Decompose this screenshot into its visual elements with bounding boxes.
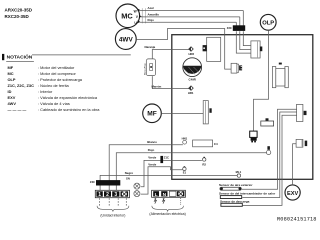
connector CN2 4WV plug bbox=[231, 63, 242, 73]
connector R2 bbox=[202, 157, 206, 167]
svg-text:Azul: Azul bbox=[148, 6, 154, 10]
svg-text:Rojo: Rojo bbox=[148, 18, 155, 22]
wire Blanco bbox=[109, 140, 183, 191]
connector ML1 bbox=[236, 170, 242, 177]
brace alimentacion electrica bbox=[152, 206, 184, 212]
wire 4WV to connector CN2 bbox=[137, 29, 232, 70]
svg-text:OLP: OLP bbox=[8, 77, 16, 82]
svg-text:ID: ID bbox=[8, 89, 12, 94]
svg-text:Z3C: Z3C bbox=[227, 26, 232, 30]
wire Verde 2 bbox=[141, 162, 183, 194]
svg-text:EXV: EXV bbox=[8, 95, 16, 100]
protector OLP bbox=[260, 14, 276, 30]
svg-text:Verde: Verde bbox=[148, 156, 156, 160]
relay module R1 bbox=[203, 37, 221, 61]
svg-text:HR2: HR2 bbox=[188, 52, 194, 56]
svg-text:Naranja: Naranja bbox=[145, 45, 156, 49]
svg-text:OLP: OLP bbox=[262, 21, 274, 27]
svg-text:C4: C4 bbox=[214, 142, 218, 146]
svg-text:Blanco/Rojo: Blanco/Rojo bbox=[145, 62, 147, 75]
svg-text:Marrón: Marrón bbox=[152, 84, 162, 88]
svg-text:V: V bbox=[136, 15, 139, 19]
svg-text:HN1: HN1 bbox=[182, 137, 188, 141]
svg-text:1: 1 bbox=[98, 192, 101, 198]
svg-text:C49R: C49R bbox=[189, 78, 197, 82]
notation legend title underline bbox=[6, 60, 34, 62]
svg-text:: Protector de sobrecarga: : Protector de sobrecarga bbox=[38, 77, 83, 82]
main outdoor unit box bbox=[172, 35, 313, 180]
svg-text:GN: GN bbox=[126, 178, 130, 181]
dotted earth below ground bbox=[180, 198, 182, 205]
connector pin on Rojo wire bbox=[266, 146, 270, 154]
wire drops into ferrite Z3C bbox=[236, 11, 243, 27]
svg-text:: Interior: : Interior bbox=[38, 89, 53, 94]
wire Rojo bottom bbox=[116, 148, 266, 191]
wire Marron to HR1 bbox=[152, 76, 190, 89]
svg-text:R08024151718: R08024151718 bbox=[277, 217, 317, 223]
svg-text:4WV: 4WV bbox=[8, 101, 17, 106]
svg-text:ML1: ML1 bbox=[236, 170, 242, 174]
wire MC-V Amarillo bbox=[140, 13, 240, 17]
notation legend box top border bbox=[32, 54, 131, 56]
wire MC-U Rojo bbox=[140, 18, 237, 22]
svg-text:E1: E1 bbox=[183, 170, 187, 174]
terminal block power (L N) bbox=[152, 190, 186, 198]
thermal protector component bbox=[145, 59, 156, 76]
notation legend rows bbox=[8, 65, 101, 112]
svg-text:: Válvula de 4 vías: : Válvula de 4 vías bbox=[38, 101, 70, 106]
svg-text:MC: MC bbox=[121, 12, 133, 21]
ferrite core Z2C bbox=[90, 180, 120, 186]
wire MC-W Azul bbox=[140, 6, 244, 10]
svg-text:Z1C: Z1C bbox=[164, 155, 169, 159]
dashed field wires below block 1 bbox=[100, 198, 127, 206]
svg-text:NOTACIÓN: NOTACIÓN bbox=[7, 53, 33, 61]
wire Verde 1 bbox=[141, 156, 202, 187]
wire MF to connector bbox=[162, 112, 204, 114]
reactor L1 bbox=[272, 63, 288, 88]
valve EXV bbox=[285, 185, 300, 200]
wire EXV up to connector CN4 bbox=[293, 144, 297, 186]
connector HR2 bbox=[188, 47, 194, 56]
OLP plug bbox=[250, 131, 257, 142]
svg-text:(Alimentación eléctrica): (Alimentación eléctrica) bbox=[149, 212, 185, 216]
svg-text:: Motor del ventilador: : Motor del ventilador bbox=[38, 65, 75, 70]
fan motor MF bbox=[143, 104, 162, 123]
connector CN3 sensors bbox=[297, 104, 307, 121]
sensor intercambiador bbox=[219, 191, 276, 198]
svg-text:W: W bbox=[134, 9, 137, 13]
field power arrows below L N bbox=[154, 198, 156, 203]
svg-text:Sensor de del intercambiador d: Sensor de del intercambiador de calor bbox=[219, 191, 276, 195]
svg-text:Negro: Negro bbox=[125, 171, 134, 175]
flat connector with tab bbox=[261, 118, 274, 126]
relay C4 bbox=[193, 140, 218, 147]
svg-text:(Unidad interior): (Unidad interior) bbox=[100, 214, 125, 218]
wire Naranja loop to HR2 bbox=[145, 45, 190, 60]
motor MC bbox=[116, 4, 146, 28]
earth screw upper bbox=[134, 183, 140, 189]
svg-text:Z2C: Z2C bbox=[90, 180, 95, 184]
capacitor C49R bbox=[183, 58, 202, 82]
svg-text:Amarillo: Amarillo bbox=[148, 13, 160, 17]
svg-text:: Cableado de suministro en la: : Cableado de suministro en la obra bbox=[38, 107, 100, 112]
svg-text:3: 3 bbox=[114, 192, 117, 198]
brace unidad interior bbox=[97, 206, 129, 212]
svg-text:Z1C, Z2C, Z3C: Z1C, Z2C, Z3C bbox=[8, 83, 35, 88]
svg-text:R2: R2 bbox=[202, 162, 206, 166]
connector HN1 bbox=[182, 137, 188, 145]
earth screw lower bbox=[134, 191, 140, 197]
svg-text:RXC20-35D: RXC20-35D bbox=[5, 14, 30, 19]
wire Negro bbox=[100, 171, 237, 191]
svg-text:MF: MF bbox=[147, 111, 157, 118]
ferrite core Z3C bbox=[227, 25, 245, 31]
svg-text:HR1: HR1 bbox=[188, 91, 194, 95]
connector CN1 bbox=[251, 41, 262, 58]
svg-text:MC: MC bbox=[8, 71, 14, 76]
notation legend left black bar bbox=[2, 54, 4, 60]
svg-text:Blanco: Blanco bbox=[147, 140, 157, 144]
svg-text:2: 2 bbox=[106, 192, 109, 198]
wires below ferrite to connector CN1 bbox=[236, 31, 251, 53]
connector HR1 bbox=[188, 86, 194, 95]
svg-text:ARXC20-35D: ARXC20-35D bbox=[5, 8, 33, 13]
terminal block X1M (unidad interior) bbox=[95, 190, 129, 198]
MF connector bbox=[203, 101, 212, 124]
wire OLP down with branch bbox=[254, 31, 269, 132]
valve 4WV bbox=[115, 29, 136, 50]
connector E1 bbox=[183, 166, 187, 174]
connector CN4 EXV bbox=[296, 139, 307, 147]
svg-text:Sensor de aire exterior: Sensor de aire exterior bbox=[219, 183, 253, 187]
svg-text:Rojo: Rojo bbox=[148, 148, 155, 152]
svg-text:Verde: Verde bbox=[148, 162, 156, 166]
svg-text:EXV: EXV bbox=[287, 191, 298, 197]
svg-text:: Núcleo de ferrita: : Núcleo de ferrita bbox=[38, 83, 70, 88]
ferrite core Z1C bbox=[160, 155, 169, 163]
svg-text:4WV: 4WV bbox=[119, 37, 134, 44]
svg-text:L: L bbox=[155, 192, 158, 198]
sensor descarga bbox=[220, 200, 250, 207]
svg-text:— — — —: — — — — bbox=[8, 107, 27, 112]
svg-text:: Motor del compresor: : Motor del compresor bbox=[38, 71, 77, 76]
sensor aire exterior bbox=[219, 183, 253, 190]
svg-text:: Válvula de expansión electró: : Válvula de expansión electrónica bbox=[38, 95, 98, 100]
svg-text:MF: MF bbox=[8, 65, 14, 70]
sensor wires from CN3 bbox=[242, 109, 297, 189]
svg-text:N: N bbox=[163, 192, 167, 198]
